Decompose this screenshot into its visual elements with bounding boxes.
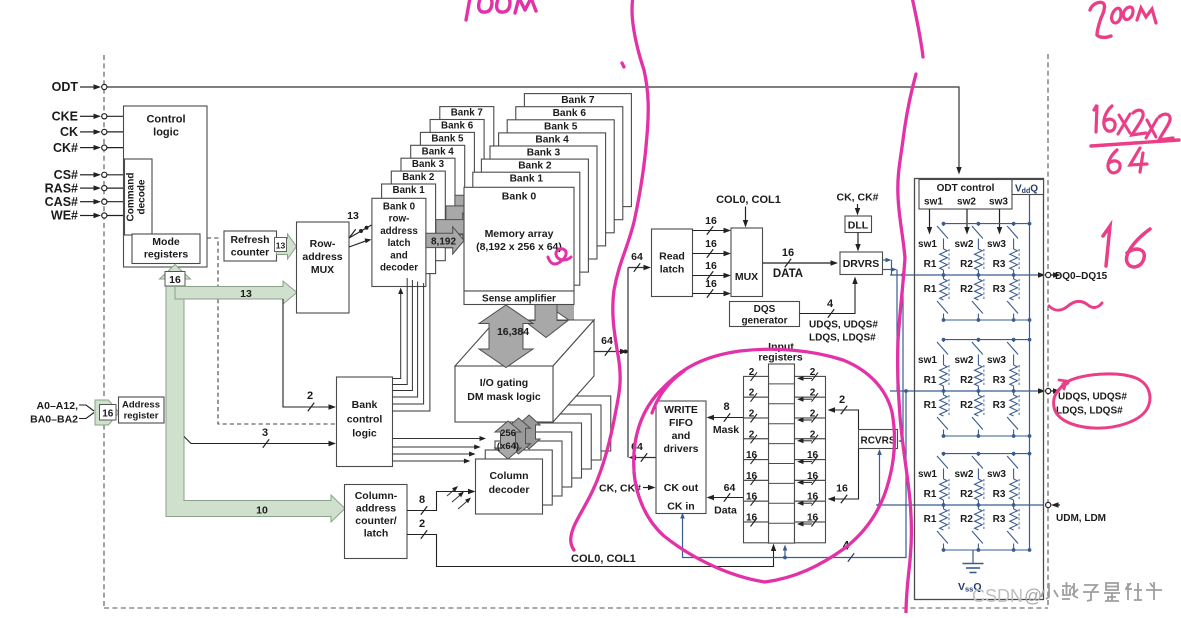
svg-text:UDQS, UDQS#: UDQS, UDQS# <box>809 320 878 331</box>
ODT group 2 switch sw3 lower <box>1007 417 1018 430</box>
gray bus arrow 16,384 middle copy <box>524 277 568 338</box>
green bus arrow 16 into mode registers <box>160 265 191 280</box>
ODT group 2 switch sw2 upper <box>977 340 979 342</box>
svg-text:Bank 3: Bank 3 <box>412 159 445 170</box>
DLL block <box>845 216 872 233</box>
svg-text:Bank 7: Bank 7 <box>561 95 595 106</box>
input pin CK <box>60 125 124 139</box>
read latch block <box>652 229 693 297</box>
svg-text:and: and <box>390 250 407 261</box>
svg-text:8: 8 <box>419 494 425 506</box>
ODT group 3 top rail <box>944 453 1030 455</box>
ODT outer block <box>915 179 1044 600</box>
resistor R1 upper group 2 <box>943 355 945 366</box>
ODT group 1 top rail <box>944 223 1030 225</box>
svg-text:sw1: sw1 <box>924 197 943 208</box>
svg-text:latch: latch <box>660 264 685 276</box>
svg-text:3: 3 <box>262 427 268 439</box>
svg-text:sw2: sw2 <box>955 355 974 366</box>
wire 16 DATA MUX to DRVRS <box>763 262 834 264</box>
svg-text:Bank 1: Bank 1 <box>510 174 544 185</box>
row-address latch bank stack banks 7 to 1 <box>382 107 494 274</box>
blue wire UDM line up to RCVRS bottom <box>879 453 881 506</box>
wires bank control logic to row-address latch stack <box>393 274 430 412</box>
svg-text:FIFO: FIFO <box>669 417 693 429</box>
resistor R3 lower group 1 <box>1013 275 1015 279</box>
svg-text:MUX: MUX <box>735 271 758 283</box>
svg-text:8: 8 <box>723 401 729 413</box>
svg-text:DM mask logic: DM mask logic <box>467 391 541 403</box>
svg-text:sw3: sw3 <box>987 469 1006 480</box>
DRVRS block <box>840 252 883 275</box>
svg-text:RAS#: RAS# <box>45 181 78 195</box>
svg-text:8,192: 8,192 <box>431 237 456 248</box>
wires bank control logic to column decoder stack <box>393 436 487 464</box>
svg-text:decode: decode <box>137 179 148 214</box>
DQS generator block <box>730 302 800 327</box>
svg-text:sw3: sw3 <box>987 355 1006 366</box>
input pin CAS# <box>45 195 124 209</box>
svg-text:generator: generator <box>741 316 787 327</box>
svg-text:sw3: sw3 <box>989 197 1008 208</box>
resistor R3 upper group 3 <box>1013 469 1015 480</box>
svg-text:R3: R3 <box>993 375 1006 386</box>
memory array bank 0 <box>464 187 574 291</box>
ground VssQ <box>972 550 974 563</box>
WRITE FIFO and drivers block <box>656 401 706 514</box>
green address bus vertical band <box>166 279 345 522</box>
svg-text:13: 13 <box>347 210 359 222</box>
svg-text:register: register <box>124 411 159 422</box>
ODT group 1 switch sw2 lower <box>972 301 983 314</box>
ODT control block <box>919 180 1012 210</box>
svg-text:4: 4 <box>827 298 834 310</box>
svg-text:R1: R1 <box>924 259 937 270</box>
pad terminal at y=391 <box>1038 388 1061 393</box>
svg-text:CK: CK <box>60 125 78 139</box>
command decode block <box>125 159 153 235</box>
pink annotation long left curve <box>571 0 649 550</box>
svg-text:Bank 7: Bank 7 <box>451 108 484 119</box>
svg-text:DLL: DLL <box>848 220 869 232</box>
row-address MUX block <box>297 222 350 313</box>
ODT group 2 switch sw1 lower <box>937 417 948 430</box>
svg-text:row-: row- <box>389 214 410 225</box>
ODT group 3 switch sw2 lower <box>972 531 983 544</box>
svg-text:address: address <box>356 503 396 515</box>
svg-text:16: 16 <box>746 450 758 461</box>
ODT group 3 bottom rail <box>944 549 1030 551</box>
gray bus arrow 8,192 stacked copies <box>436 189 493 241</box>
svg-text:16: 16 <box>807 513 819 524</box>
VddQ supply box <box>1012 180 1044 195</box>
DM pad line <box>876 504 1044 506</box>
ODT group 1 bottom rail <box>944 319 1030 321</box>
vertical 64 bus wire <box>627 268 629 458</box>
mode registers block <box>132 234 200 264</box>
svg-text:ODT: ODT <box>52 80 79 94</box>
svg-text:R2: R2 <box>960 259 973 270</box>
svg-text:13: 13 <box>276 241 286 251</box>
wire CK into DLL <box>857 204 859 211</box>
svg-text:R3: R3 <box>993 284 1006 295</box>
svg-text:Sense amplifier: Sense amplifier <box>482 294 556 305</box>
svg-text:(8,192 x 256 x 64): (8,192 x 256 x 64) <box>476 241 562 253</box>
svg-text:R3: R3 <box>993 259 1006 270</box>
svg-text:64: 64 <box>601 335 613 347</box>
svg-text:address: address <box>302 251 342 263</box>
ODT group 1 switch sw3 upper <box>1013 224 1015 226</box>
svg-text:logic: logic <box>153 127 179 139</box>
pink annotation fraction 16x2x2 over 64 <box>1091 105 1179 173</box>
ODT group 2 switch sw2 lower <box>972 417 983 430</box>
svg-text:R3: R3 <box>993 514 1006 525</box>
pink annotation long right curve <box>912 0 923 57</box>
resistor R1 upper group 1 <box>943 239 945 250</box>
pink annotation 100M handwriting top <box>466 0 536 20</box>
svg-text:CK, CK#: CK, CK# <box>836 192 878 204</box>
svg-text:CK in: CK in <box>667 501 694 513</box>
svg-text:R1: R1 <box>924 375 937 386</box>
green arrow 16 into address register <box>95 400 119 425</box>
svg-text:R1: R1 <box>924 400 937 411</box>
input pin RAS# <box>45 181 124 195</box>
ODT group 2 switch sw3 upper <box>1013 340 1015 342</box>
svg-text:Bank 3: Bank 3 <box>527 148 561 159</box>
svg-text:R2: R2 <box>960 284 973 295</box>
address register block <box>119 397 165 423</box>
svg-text:Bank: Bank <box>352 399 378 411</box>
svg-text:16: 16 <box>169 274 181 286</box>
resistor R1 lower group 1 <box>943 275 945 279</box>
svg-text:CSDN: CSDN <box>972 586 1023 606</box>
watermark chinese characters <box>1041 582 1162 601</box>
svg-text:16: 16 <box>102 409 114 420</box>
svg-text:decoder: decoder <box>489 484 530 496</box>
svg-text:CK out: CK out <box>664 482 699 494</box>
svg-text:(x64): (x64) <box>497 441 519 452</box>
wires from address inputs merging <box>79 405 94 411</box>
resistor R2 lower group 1 <box>977 275 979 279</box>
ODT group 3 switch sw1 lower <box>937 531 948 544</box>
gray bus arrow 256 stacked copies <box>507 415 541 454</box>
svg-text:LDQS, LDQS#: LDQS, LDQS# <box>809 333 876 344</box>
svg-text:CS#: CS# <box>54 168 78 182</box>
svg-text:Column: Column <box>489 470 528 482</box>
svg-text:sw2: sw2 <box>955 239 974 250</box>
resistor R2 upper group 2 <box>977 355 979 366</box>
svg-text:ODT control: ODT control <box>937 183 995 194</box>
svg-text:R3: R3 <box>993 400 1006 411</box>
resistor R2 lower group 2 <box>977 391 979 395</box>
ODT group 2 bottom rail <box>944 435 1030 437</box>
column-address counter/latch block <box>345 485 408 559</box>
DQS pad line <box>890 390 1044 392</box>
wire 2 from address bus to bank control logic <box>283 299 332 407</box>
svg-text:16: 16 <box>705 238 717 250</box>
wire 64 bus to read latch <box>628 267 647 269</box>
svg-text:R2: R2 <box>960 514 973 525</box>
svg-text:logic: logic <box>352 428 377 440</box>
svg-text:registers: registers <box>758 352 803 364</box>
svg-text:Bank 2: Bank 2 <box>518 161 552 172</box>
DQ pad line <box>890 274 1044 276</box>
ODT group 3 switch sw3 lower <box>1007 531 1018 544</box>
svg-text:R2: R2 <box>960 400 973 411</box>
svg-text:and: and <box>672 430 691 442</box>
I/O gating DM mask logic block top face <box>455 320 594 366</box>
svg-text:Bank 4: Bank 4 <box>535 134 569 145</box>
svg-text:16: 16 <box>807 492 819 503</box>
pink wave under DQ0-DQ15 <box>1049 301 1102 310</box>
pink annotation 16 <box>1103 226 1110 266</box>
wire 3 from address bus to bank control logic <box>184 437 332 444</box>
wire 2 RCVRS to input registers <box>832 410 859 430</box>
svg-text:sw2: sw2 <box>957 197 976 208</box>
svg-text:2: 2 <box>419 518 425 530</box>
svg-text:UDQS, UDQS#: UDQS, UDQS# <box>1058 392 1127 403</box>
svg-text:2: 2 <box>839 394 845 406</box>
svg-text:DRVRS: DRVRS <box>843 258 880 270</box>
svg-text:16: 16 <box>746 471 758 482</box>
wire 8 counter to column decoder <box>407 492 471 511</box>
svg-text:COL0, COL1: COL0, COL1 <box>571 553 636 565</box>
chip boundary dashed frame left side <box>103 55 105 608</box>
fan arrows into column decoder stack <box>447 486 471 509</box>
svg-text:Column-: Column- <box>355 490 398 502</box>
pink squiggle under memory array text <box>548 249 571 264</box>
svg-text:Bank 0: Bank 0 <box>502 191 537 203</box>
I/O gating DM mask logic block front face <box>455 366 553 422</box>
RCVRS block <box>859 430 898 449</box>
pad terminal at y=505 <box>1046 502 1060 507</box>
refresh counter block <box>224 231 277 261</box>
input pin CKE <box>52 110 124 124</box>
svg-text:256: 256 <box>500 428 516 439</box>
wire ODT to ODT control <box>107 87 959 170</box>
input pin CK# <box>53 141 124 155</box>
wire Mask 8 to write FIFO <box>711 417 744 419</box>
resistor R3 upper group 1 <box>1013 239 1015 250</box>
svg-text:Read: Read <box>659 251 685 263</box>
svg-text:address: address <box>380 226 418 237</box>
svg-text:MUX: MUX <box>311 264 334 276</box>
resistor R2 upper group 1 <box>977 239 979 250</box>
resistor R3 upper group 2 <box>1013 355 1015 366</box>
svg-text:CK#: CK# <box>53 141 78 155</box>
svg-text:LDQS, LDQS#: LDQS, LDQS# <box>1056 406 1123 417</box>
wire 64 write FIFO to bus <box>633 457 656 459</box>
resistor R1 lower group 3 <box>943 505 945 509</box>
svg-text:Bank 1: Bank 1 <box>393 185 426 196</box>
svg-text:R1: R1 <box>924 284 937 295</box>
svg-text:counter: counter <box>231 247 270 259</box>
svg-text:R1: R1 <box>924 514 937 525</box>
svg-text:Row-: Row- <box>310 238 336 250</box>
resistor R2 lower group 3 <box>977 505 979 509</box>
svg-text:16: 16 <box>746 492 758 503</box>
blue wire DRVRS output to DQS line <box>883 269 894 271</box>
ODT group 3 switch sw2 upper <box>977 454 979 456</box>
bank 0 row-address latch and decoder <box>372 198 426 286</box>
MUX block <box>731 228 763 297</box>
svg-text:DATA: DATA <box>773 268 803 280</box>
blue wire DQ line down to RCVRS <box>902 275 904 441</box>
svg-text:10: 10 <box>256 505 268 517</box>
svg-text:16: 16 <box>807 450 819 461</box>
svg-text:Bank 6: Bank 6 <box>441 121 474 132</box>
ODT group 1 switch sw1 upper <box>943 224 945 226</box>
wire DLL to DRVRS <box>857 233 859 248</box>
resistor R1 upper group 3 <box>943 469 945 480</box>
svg-text:16: 16 <box>836 483 848 495</box>
svg-text:Data: Data <box>714 505 737 517</box>
svg-text:UDM, LDM: UDM, LDM <box>1056 513 1106 524</box>
svg-text:Bank 5: Bank 5 <box>431 133 464 144</box>
input register staging cells left <box>744 367 769 543</box>
green bus 13 to row-address MUX <box>175 281 297 304</box>
ODT group 3 switch sw1 upper <box>943 454 945 456</box>
svg-text:Bank 4: Bank 4 <box>422 146 455 157</box>
svg-text:Mode: Mode <box>152 236 180 248</box>
svg-text:16: 16 <box>746 513 758 524</box>
svg-text:R2: R2 <box>960 375 973 386</box>
svg-text:16: 16 <box>705 215 717 227</box>
svg-text:R2: R2 <box>960 489 973 500</box>
wire 13 row-address MUX to latch with junction dots <box>349 225 372 238</box>
resistor R3 lower group 2 <box>1013 391 1015 395</box>
column decoder stack boxes <box>485 396 611 505</box>
ODT group 3 switch sw3 upper <box>1013 454 1015 456</box>
svg-text:WE#: WE# <box>51 209 78 223</box>
ODT group 1 switch sw1 lower <box>937 301 948 314</box>
svg-text:control: control <box>347 414 383 426</box>
svg-text:16: 16 <box>807 471 819 482</box>
pink circle around write FIFO input registers <box>634 349 895 582</box>
svg-text:Bank 5: Bank 5 <box>544 121 578 132</box>
memory array bank stack banks 7 to 1 <box>473 94 632 286</box>
svg-text:Address: Address <box>122 400 160 411</box>
input pin WE# <box>51 209 124 223</box>
svg-text:64: 64 <box>724 482 736 494</box>
svg-text:DQS: DQS <box>754 304 776 315</box>
svg-text:I/O gating: I/O gating <box>480 377 528 389</box>
gray bus arrow 256 x64 <box>495 421 521 459</box>
ODT group 1 switch sw3 lower <box>1007 301 1018 314</box>
svg-text:latch: latch <box>364 528 389 540</box>
svg-text:16: 16 <box>705 260 717 272</box>
gray bus arrow 8,192 <box>426 227 464 254</box>
svg-text:Refresh: Refresh <box>230 234 269 246</box>
input registers center column <box>769 364 795 543</box>
svg-text:16,384: 16,384 <box>497 326 529 338</box>
green arrow 13 refresh counter to MUX <box>277 234 297 259</box>
svg-text:sw1: sw1 <box>918 469 937 480</box>
svg-text:Mask: Mask <box>713 424 739 436</box>
input pin ODT <box>52 80 107 94</box>
ODT group 2 top rail <box>944 339 1030 341</box>
wire 4 DQS generator to DRVRS <box>800 281 856 314</box>
svg-text:Command: Command <box>126 173 137 222</box>
svg-text:CAS#: CAS# <box>45 195 78 209</box>
svg-text:registers: registers <box>144 249 189 261</box>
VddQ rail <box>1029 195 1031 551</box>
svg-text:R1: R1 <box>924 489 937 500</box>
I/O gating DM mask logic block right face <box>553 320 594 422</box>
gray bus arrow 16,384 <box>479 305 533 368</box>
svg-text:@: @ <box>1024 586 1042 606</box>
switch control arrows sw1 sw2 sw3 <box>927 209 1002 235</box>
svg-text:sw3: sw3 <box>987 239 1006 250</box>
svg-text:Bank 2: Bank 2 <box>402 172 435 183</box>
label 4 on strobe bus <box>848 553 854 561</box>
resistor R3 lower group 3 <box>1013 505 1015 509</box>
svg-text:COL0, COL1: COL0, COL1 <box>716 194 781 206</box>
input pin CS# <box>54 168 124 182</box>
svg-text:WRITE: WRITE <box>664 404 698 416</box>
column decoder block <box>476 459 543 514</box>
bank control logic block <box>337 377 393 467</box>
svg-text:DQ0–DQ15: DQ0–DQ15 <box>1055 271 1108 282</box>
svg-text:sw1: sw1 <box>918 355 937 366</box>
svg-text:decoder: decoder <box>380 263 418 274</box>
svg-text:13: 13 <box>240 288 252 300</box>
dashed control wire from mode registers to bank control logic <box>207 238 336 424</box>
svg-text:64: 64 <box>631 251 643 263</box>
svg-text:BA0–BA2: BA0–BA2 <box>30 414 78 426</box>
chip boundary dashed frame bottom side <box>104 607 1048 609</box>
ODT group 2 switch sw1 upper <box>943 340 945 342</box>
ODT group 1 switch sw2 upper <box>977 224 979 226</box>
svg-text:sw2: sw2 <box>955 469 974 480</box>
svg-text:RCVRS: RCVRS <box>860 436 895 447</box>
wire 2 COL0 COL1 from counter to input registers <box>407 535 774 567</box>
chip boundary dashed frame right side <box>1047 54 1049 608</box>
svg-text:Bank 6: Bank 6 <box>553 108 587 119</box>
pad terminal at y=275 <box>1038 272 1061 277</box>
wires 16x4 read latch to MUX <box>693 215 732 298</box>
blue arrow into input registers bottom <box>784 549 786 558</box>
sense amplifier <box>464 291 574 305</box>
pink annotation 200M handwriting top right <box>1090 2 1156 37</box>
control logic block U1 <box>124 106 208 267</box>
pink circle overlap stroke top-left <box>652 371 684 413</box>
svg-text:16: 16 <box>705 278 717 290</box>
resistor R1 lower group 2 <box>943 391 945 395</box>
blue strobe bus 4 wire <box>683 391 907 558</box>
wire 16 RCVRS to input registers <box>832 449 859 500</box>
svg-text:drivers: drivers <box>663 443 698 455</box>
svg-text:16: 16 <box>782 247 794 259</box>
wire Data 64 to write FIFO <box>711 497 744 499</box>
svg-text:Bank 0: Bank 0 <box>383 202 416 213</box>
wire row-address MUX to latch lower arrow <box>349 241 367 247</box>
svg-text:CKE: CKE <box>52 110 78 124</box>
input register staging cells right with arrows <box>795 367 826 543</box>
svg-text:2: 2 <box>307 390 313 402</box>
svg-text:latch: latch <box>388 238 411 249</box>
svg-text:Memory array: Memory array <box>485 228 554 240</box>
svg-text:counter/: counter/ <box>355 515 397 527</box>
svg-text:R3: R3 <box>993 489 1006 500</box>
svg-text:sw1: sw1 <box>918 239 937 250</box>
wire 64 I/O gating to bus <box>594 351 623 353</box>
resistor R2 upper group 3 <box>977 469 979 480</box>
pink circle around UDQS LDQS labels <box>1054 374 1150 428</box>
blue wire DRVRS output to DQ line <box>883 259 889 261</box>
svg-text:Control: Control <box>146 114 185 126</box>
svg-text:A0–A12,: A0–A12, <box>37 400 79 412</box>
